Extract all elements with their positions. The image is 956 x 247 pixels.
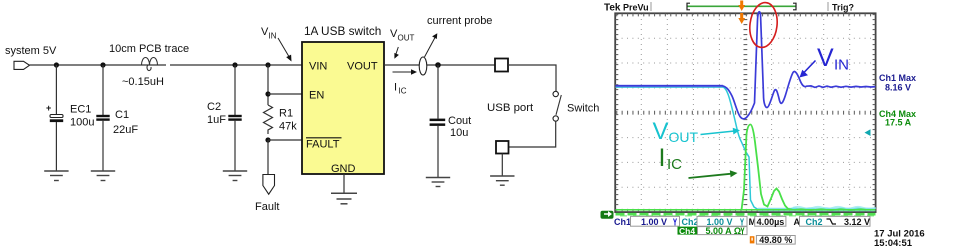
annotation: red circle around spike <box>747 1 779 49</box>
wire: EN pin <box>268 93 302 95</box>
svg-text:Ch1 Max: Ch1 Max <box>879 73 916 83</box>
svg-text:C1: C1 <box>115 109 129 121</box>
switch S1 <box>553 91 561 121</box>
capacitor EC1 (electrolytic) <box>46 65 63 171</box>
wire: VIN node down to EN <box>267 65 269 105</box>
inductor L (10cm PCB trace ~0.15uH) <box>142 58 158 71</box>
scope graticule frame <box>615 13 875 212</box>
svg-text:4.00µs: 4.00µs <box>757 217 785 227</box>
wire: lower contact to ground <box>501 154 503 177</box>
svg-text:10u: 10u <box>450 127 468 139</box>
IC U1: 1A USB switch <box>302 42 384 174</box>
svg-text:~0.15uH: ~0.15uH <box>122 76 164 88</box>
svg-text:100u: 100u <box>70 117 94 129</box>
svg-text:IN: IN <box>269 32 277 41</box>
Ch1 trace (VIN, blue) <box>616 12 876 119</box>
svg-text:FAULT: FAULT <box>306 139 340 151</box>
junction dot at C1 tap <box>100 62 105 67</box>
status bar row 3: delay 49.80% <box>750 235 795 245</box>
junction dot at C2 tap <box>232 62 237 67</box>
graticule center crosshair ticks <box>616 14 875 212</box>
svg-text:R1: R1 <box>279 108 293 120</box>
svg-text:I: I <box>394 82 397 94</box>
wire: GND pin stem <box>343 174 345 193</box>
svg-text:3.12 V: 3.12 V <box>844 217 870 227</box>
USB port lower contact <box>496 141 509 154</box>
output port tag Fault <box>263 175 275 195</box>
graticule edge ticks <box>616 14 875 212</box>
svg-text:1.00 V: 1.00 V <box>641 217 667 227</box>
ground (under EC1) <box>44 171 68 181</box>
capacitor C1 <box>96 65 109 171</box>
svg-text:GND: GND <box>331 163 356 175</box>
readout: Ch4 Max 17.5 A <box>879 109 916 128</box>
svg-text:10cm PCB trace: 10cm PCB trace <box>109 43 189 55</box>
timestamp <box>874 229 925 247</box>
svg-text:VOUT: VOUT <box>347 61 378 73</box>
junction dot at EN tee <box>265 91 270 96</box>
capacitor Cout <box>430 65 446 178</box>
trigger position marker (orange) <box>738 1 745 25</box>
junction dot at Cout tap <box>435 62 441 68</box>
ground (under C2) <box>223 171 247 181</box>
svg-text:IN: IN <box>834 57 849 74</box>
svg-text:Ch1: Ch1 <box>614 217 631 227</box>
svg-text:Tek: Tek <box>604 3 621 14</box>
svg-text:EN: EN <box>309 90 324 102</box>
label: current probe with arrow <box>425 15 493 57</box>
waveform label IIC (dark green) with arrow <box>659 144 738 178</box>
current probe loop <box>419 57 427 75</box>
readout: Ch1 Max 8.16 V <box>879 73 916 93</box>
svg-text:Switch: Switch <box>567 103 599 115</box>
ground (under Cout) <box>426 178 450 187</box>
status bar row 2: Ch4 <box>678 226 748 236</box>
wire: VOUT to USB port <box>384 64 495 66</box>
svg-text:Cout: Cout <box>448 115 471 127</box>
svg-text:17.5 A: 17.5 A <box>885 118 912 128</box>
waveform label VOUT (cyan) with arrow <box>653 118 741 145</box>
node label VOUT with arrow <box>390 28 415 59</box>
node label VIN with arrow <box>261 26 292 62</box>
svg-text:I: I <box>659 144 666 172</box>
svg-text:Trig?: Trig? <box>832 3 854 13</box>
junction dot at EC1 tap <box>54 62 59 67</box>
svg-text:OUT: OUT <box>398 34 415 43</box>
svg-text:Ch2: Ch2 <box>806 217 823 227</box>
waveform label VIN (blue) with arrow <box>800 44 850 78</box>
graticule dotted grid <box>616 14 875 212</box>
svg-text:47k: 47k <box>279 121 297 133</box>
svg-text:VIN: VIN <box>309 61 327 73</box>
capacitor C2 <box>228 65 241 171</box>
svg-text:OUT: OUT <box>669 129 699 145</box>
svg-text:49.80 %: 49.80 % <box>759 235 792 245</box>
svg-text:5.00 A Ω: 5.00 A Ω <box>706 226 742 236</box>
ground (under USB port) <box>490 176 514 185</box>
svg-text:C2: C2 <box>207 101 221 113</box>
trigger level marker (right edge, Ch2) <box>865 129 871 136</box>
svg-text:Fault: Fault <box>255 201 279 213</box>
wire: FAULT pin <box>268 139 302 141</box>
svg-text:system 5V: system 5V <box>5 45 57 57</box>
svg-text:V: V <box>817 44 834 72</box>
USB port upper contact <box>495 59 508 72</box>
svg-text:PreVu: PreVu <box>623 3 649 13</box>
svg-text:8.16 V: 8.16 V <box>885 83 911 93</box>
scope acquisition bar <box>687 3 796 10</box>
status bar row 1 <box>614 216 870 227</box>
input port tag (system 5V) <box>14 61 30 69</box>
svg-text:current probe: current probe <box>427 15 492 27</box>
current arrow IIC <box>393 69 418 95</box>
resistor R1 <box>264 105 273 134</box>
scope header: Trig? <box>827 2 829 11</box>
svg-text:1uF: 1uF <box>207 114 226 126</box>
svg-text:1A USB switch: 1A USB switch <box>304 24 381 38</box>
svg-text:+: + <box>46 103 51 113</box>
wire: main 5V rail (right of inductor) <box>170 64 302 66</box>
wire: down to Fault tag <box>267 140 269 175</box>
wire: main 5V rail (left of inductor) <box>30 64 167 66</box>
ground (under IC GND) <box>331 193 357 204</box>
svg-text:USB port: USB port <box>487 102 534 114</box>
svg-text:Ch4: Ch4 <box>679 226 695 236</box>
svg-text:IC: IC <box>399 87 407 96</box>
Ch4 trace (IIC, green) <box>616 125 876 216</box>
svg-text:22uF: 22uF <box>113 124 138 136</box>
wire: switch to lower contact <box>509 121 556 147</box>
Ch2 trace (VOUT, cyan) <box>616 87 877 210</box>
svg-text:EC1: EC1 <box>70 104 91 116</box>
wire: upper contact to switch <box>508 65 556 91</box>
junction dot at FAULT tee <box>265 137 270 142</box>
Ch4 position marker (left edge) <box>601 211 614 219</box>
svg-text:IC: IC <box>667 156 682 173</box>
svg-text:V: V <box>653 118 669 145</box>
ground (under C1) <box>91 171 115 181</box>
svg-text:15:04:51: 15:04:51 <box>874 238 913 247</box>
junction dot at VIN node <box>265 62 270 67</box>
